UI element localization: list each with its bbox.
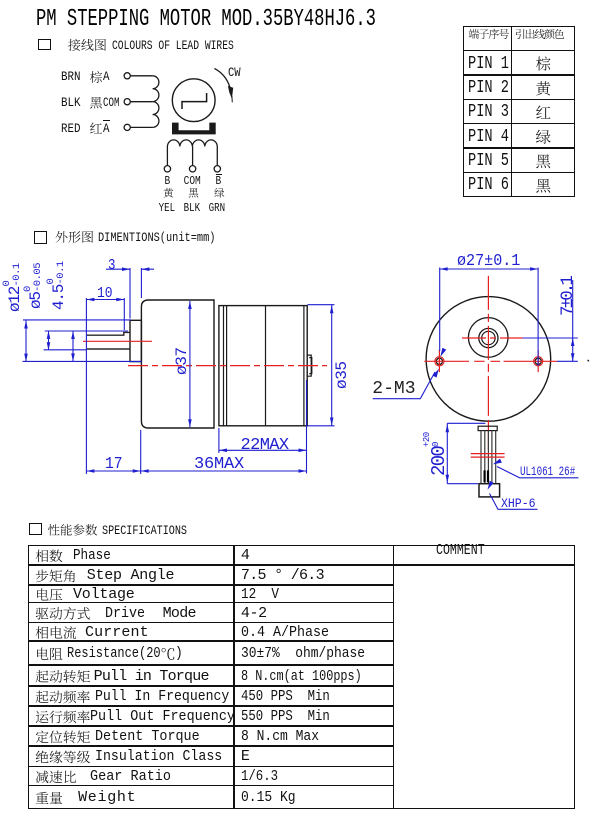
spec row 5 value xyxy=(241,625,329,640)
spec row 10 latin xyxy=(95,729,200,744)
spec row 10 value xyxy=(241,729,319,744)
terminal COM (phase A) xyxy=(124,99,130,105)
terminal A xyxy=(124,73,130,79)
dim text phi35 xyxy=(334,352,350,389)
motor side view: shaft xyxy=(87,332,130,349)
dim text 36MAX xyxy=(194,456,244,473)
pin 2 colour 黄 xyxy=(536,81,550,95)
spec row 12 value xyxy=(241,769,278,784)
wire break marks (red) xyxy=(471,454,505,458)
motor side view: motor can xyxy=(219,306,307,426)
pin 1 colour 棕 xyxy=(536,56,550,70)
front view: motor face circle xyxy=(426,297,551,422)
spec row 2 value xyxy=(241,568,324,583)
spec row 5 latin xyxy=(85,625,149,640)
checkbox wiring xyxy=(38,39,51,50)
spec row 11 latin xyxy=(95,749,222,764)
spec row 7 value xyxy=(241,669,362,684)
dim phi12 (boss) xyxy=(23,320,143,362)
spec row 4 value xyxy=(241,606,267,621)
leader arrow into left hole xyxy=(440,348,446,357)
wiring labels bottom xyxy=(165,176,171,188)
centerline shaft horizontal xyxy=(462,337,523,339)
dim text 17 xyxy=(105,456,123,473)
leader XHP-6 xyxy=(490,494,538,510)
checkbox dimensions xyxy=(34,231,47,244)
spec row 12 cjk label xyxy=(36,771,76,784)
dim text phi12 tol xyxy=(7,255,23,312)
label yellow black green xyxy=(163,188,173,198)
section header wiring xyxy=(68,39,106,51)
wire Abar to coil xyxy=(130,126,152,128)
lead wire grommet xyxy=(478,426,497,430)
spec row 6 cjk label xyxy=(37,648,62,661)
spec row 10 cjk label xyxy=(36,730,90,743)
centerline: shaft axis xyxy=(83,340,152,342)
spec row 11 cjk label xyxy=(36,751,90,764)
motor terminal bump xyxy=(307,355,312,376)
label XHP-6 xyxy=(501,497,536,510)
spec row 9 value xyxy=(241,709,330,724)
CW label xyxy=(228,66,241,79)
dim phi37 (gearbox) xyxy=(189,301,191,427)
rotor step mark xyxy=(182,93,207,109)
extension line at shaft end xyxy=(85,298,87,474)
pin 3 colour 红 xyxy=(536,106,550,119)
dim 7 (shaft offset) xyxy=(523,280,578,361)
dim text phi27 xyxy=(457,253,520,270)
checkbox specifications xyxy=(29,523,42,535)
spec row 8 cjk label xyxy=(36,690,90,703)
spec row 6 latin xyxy=(67,646,161,661)
leader 2-M3 xyxy=(373,372,435,399)
spec row 7 cjk label xyxy=(36,670,90,683)
pin 5 colour 黑 xyxy=(536,154,550,168)
label BRN brown xyxy=(90,71,102,83)
dim text 7+-0.1 xyxy=(560,277,578,316)
spec row 8 value xyxy=(241,689,330,704)
label BLK black xyxy=(90,97,102,109)
dim 4.5 xyxy=(72,331,74,361)
dim text 4.5 tol xyxy=(51,259,67,310)
motor side view: gearbox body xyxy=(141,300,214,428)
pin 6 colour 黑 xyxy=(536,179,550,193)
spec row 3 cjk label xyxy=(37,588,62,601)
stator bracket xyxy=(172,123,216,135)
spec table frame xyxy=(28,545,575,809)
spec row 4 latin xyxy=(105,606,145,621)
pin 4 colour 绿 xyxy=(536,130,551,144)
stray point xyxy=(588,360,590,362)
dim text 10 xyxy=(97,286,113,301)
section header dimensions xyxy=(56,231,94,243)
centerline: motor axis xyxy=(128,365,327,367)
coil L1 (phase A winding, vertical) xyxy=(153,76,159,128)
motor side view: bearing boss xyxy=(130,320,141,361)
mounting hole left (M3) xyxy=(436,358,442,364)
dim 200 (lead length) xyxy=(447,423,485,483)
lead wires xyxy=(481,431,496,484)
label RED red xyxy=(90,123,102,134)
dim phi35 (motor can) xyxy=(308,305,335,426)
spec row 13 cjk label xyxy=(36,792,62,804)
mounting hole right (M3) xyxy=(535,358,541,364)
CW rotation arrow xyxy=(214,68,230,87)
motor can seams xyxy=(224,306,304,426)
wire COM to coil xyxy=(130,101,152,103)
spec row 1 cjk label xyxy=(36,550,63,563)
spec row 1 latin xyxy=(73,548,111,563)
spec row 13 latin xyxy=(78,790,136,805)
dim text 200 tol xyxy=(430,422,449,476)
dim 17 / 36MAX baseline xyxy=(86,430,306,474)
dim 22MAX xyxy=(219,380,307,474)
connector XHP-6 xyxy=(479,484,500,497)
hole vertical centerlines xyxy=(439,350,538,372)
spec row 8 latin xyxy=(95,689,229,704)
spec row 11 value xyxy=(241,749,250,764)
spec row 9 latin xyxy=(90,709,235,724)
spec row 13 value xyxy=(241,790,296,805)
front view: shaft circles xyxy=(479,328,498,347)
spec row 1 value xyxy=(241,548,250,563)
pin table header cjk xyxy=(469,29,509,39)
title xyxy=(36,8,376,32)
label UL1061 xyxy=(520,465,575,478)
spec row 9 cjk label xyxy=(36,710,90,723)
spec row 2 cjk label xyxy=(36,570,75,583)
dim text phi37 xyxy=(174,346,190,375)
terminal Bbar xyxy=(214,166,220,172)
dim 10 (shaft length) xyxy=(86,298,124,330)
spec row 2 latin xyxy=(87,568,175,583)
spec row 3 value xyxy=(241,587,279,602)
spec row 3 latin xyxy=(73,587,135,602)
leader UL1061 xyxy=(497,467,578,478)
terminal COM (phase B) xyxy=(189,166,195,172)
wire A to coil xyxy=(130,75,152,77)
spec row 12 latin xyxy=(90,769,171,784)
spec row 5 cjk label xyxy=(36,626,76,639)
terminal B xyxy=(164,166,170,172)
dim phi27 (hole circle) xyxy=(440,268,538,367)
spec row 7 latin xyxy=(94,669,209,684)
terminal Abar xyxy=(124,124,130,130)
wiring labels left xyxy=(61,70,81,83)
dim text 3 xyxy=(108,258,116,273)
centerline mounting holes horizontal xyxy=(424,360,557,362)
centerline vertical front view xyxy=(487,276,489,450)
front view: boss circle xyxy=(468,318,508,358)
section header specifications xyxy=(48,524,97,536)
dim phi5 (shaft) xyxy=(44,331,128,350)
comment cell divider xyxy=(393,564,574,565)
rotor M1 (motor symbol circle) xyxy=(172,79,215,122)
coil L2 (phase B winding, horizontal) xyxy=(167,140,217,165)
dim text 22MAX xyxy=(241,437,289,454)
pin table frame xyxy=(463,26,576,198)
dim 3 (boss width) xyxy=(106,268,154,319)
spec row 4 cjk label xyxy=(36,607,90,620)
wire COM tap (phase B) xyxy=(192,147,194,166)
spec row 6 value xyxy=(241,646,365,661)
dim text phi5 tol xyxy=(28,259,44,309)
label 2-M3 xyxy=(372,380,415,398)
